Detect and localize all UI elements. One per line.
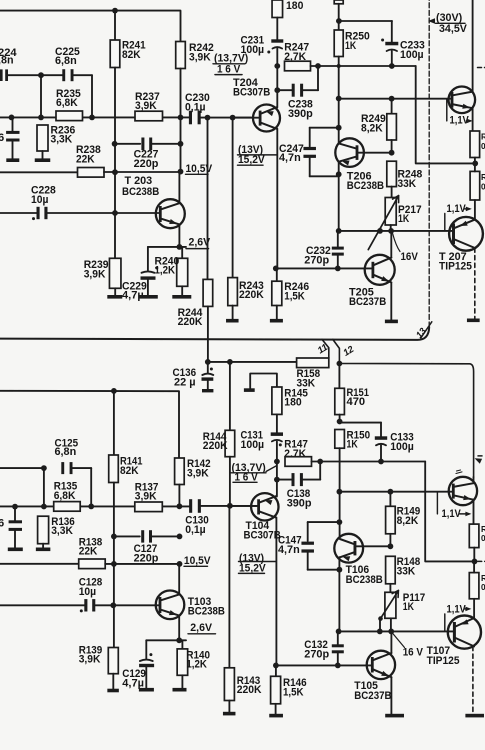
node R250 bottom	[337, 64, 341, 68]
wire Q-mid emitter down	[473, 500, 475, 524]
node 34,5V branch	[336, 18, 342, 24]
node C232 bottom	[335, 266, 341, 272]
svg-text:BC307B: BC307B	[244, 530, 281, 542]
node C233 bottom	[389, 63, 395, 69]
resistor R145 with ground elbow	[250, 374, 277, 389]
wire C125 left drop	[43, 468, 45, 506]
capacitor C229	[147, 247, 149, 271]
node main x91	[88, 504, 94, 510]
node C247 top	[336, 125, 342, 131]
wire bottom supply to right rail	[339, 364, 473, 478]
svg-text:BC237B: BC237B	[354, 690, 391, 702]
resistor R243	[228, 278, 238, 306]
svg-text:180: 180	[286, 0, 303, 12]
wire R244 top vertical	[207, 118, 209, 280]
svg-text:BC307B: BC307B	[233, 86, 270, 98]
ground C226	[6, 158, 19, 162]
svg-text:0: 0	[481, 534, 485, 543]
wire T103 emitter	[178, 616, 180, 641]
arrow supply into module	[428, 18, 435, 24]
ground R136	[36, 548, 51, 552]
svg-text:0,1µ: 0,1µ	[185, 101, 206, 113]
node x115-C227	[112, 141, 118, 147]
resistor R241	[110, 40, 120, 68]
svg-text:BC238B: BC238B	[347, 180, 384, 192]
wire 16V feed elbow	[416, 66, 476, 163]
wire top supply rail to R242	[0, 11, 181, 42]
node R151-R150 / C133	[337, 419, 343, 425]
arrow T104 emitter (PNP)	[265, 500, 273, 505]
svg-text:TIP125: TIP125	[439, 261, 472, 273]
node rail-R141	[111, 388, 117, 394]
wire emitter node	[148, 246, 186, 248]
node P117 bottom / T105 collector	[388, 629, 394, 635]
wire T107 base line	[339, 630, 453, 632]
node C133 bottom	[378, 459, 384, 465]
ground R246	[270, 319, 283, 323]
resistor R148	[386, 556, 396, 584]
wire R241 bottom vertical	[114, 68, 116, 262]
ground R146	[269, 714, 283, 718]
node T206 emitter / C247 bottom	[336, 171, 342, 177]
node collector-feedback	[178, 169, 184, 175]
node R149-R148-T106 base	[388, 543, 394, 549]
resistor R143	[224, 668, 234, 701]
svg-text:1,5K: 1,5K	[283, 686, 304, 698]
resistor R151	[338, 364, 340, 389]
node R147 left / T104 emitter	[274, 459, 280, 465]
wire R238 to collector net	[104, 171, 181, 173]
svg-text:390p: 390p	[287, 498, 312, 510]
node C227 right	[178, 141, 184, 147]
pin 11	[322, 339, 329, 358]
svg-text:220p: 220p	[134, 158, 159, 170]
resistor R236	[37, 125, 48, 151]
svg-text:0: 0	[481, 183, 485, 192]
node P117 wiper tail	[378, 616, 383, 621]
svg-text:3,9K: 3,9K	[84, 268, 106, 280]
ground R243	[226, 319, 239, 323]
svg-text:1,2K: 1,2K	[186, 659, 207, 671]
svg-text:1,1V: 1,1V	[447, 203, 467, 215]
transistor Q-upper-right (unlabeled)	[449, 87, 476, 114]
wire T107 collector dashed	[472, 646, 474, 713]
svg-text:1,2K: 1,2K	[155, 265, 176, 277]
svg-text:3,9K: 3,9K	[135, 100, 157, 112]
wire base drive	[339, 98, 451, 100]
wire R141 bottom vertical	[113, 483, 115, 648]
resistor R-col-B (label cut)	[470, 171, 480, 200]
svg-text:470: 470	[347, 396, 366, 408]
transistor T204	[233, 117, 259, 119]
resistor R158	[297, 358, 329, 368]
wire T105 emitter	[390, 677, 392, 714]
arrow supply pin at right rail	[475, 458, 483, 463]
node main line x92	[89, 115, 95, 121]
capacitor C131	[276, 414, 278, 432]
wire T105 collector	[390, 631, 392, 653]
node x115-C228 line	[112, 210, 118, 216]
resistor R242	[176, 42, 186, 69]
resistor R141	[109, 455, 119, 483]
svg-text:390p: 390p	[288, 108, 313, 120]
svg-text:R: R	[481, 525, 485, 534]
node x113-R138	[111, 561, 117, 567]
wire T207 collector dashed	[474, 248, 476, 319]
svg-text:100µ: 100µ	[400, 49, 424, 61]
resistor R-col-D (label cut)	[469, 573, 479, 599]
transistor T205	[365, 255, 395, 285]
wire base drive bottom	[339, 491, 451, 493]
svg-text:3,9K: 3,9K	[189, 52, 211, 64]
wire main to R143	[228, 506, 230, 668]
bottom rail wire	[0, 391, 179, 458]
svg-text:6,8K: 6,8K	[56, 97, 78, 109]
module boundary top block	[0, 327, 429, 340]
node C136 top	[205, 359, 211, 365]
wire T205 base line	[276, 267, 372, 269]
capacitor C224 (cut at edge)	[0, 69, 3, 81]
svg-text:10µ: 10µ	[31, 194, 48, 206]
node T203 emitter	[177, 244, 183, 250]
wire R243 top vertical	[232, 118, 234, 278]
node R249 top	[389, 96, 395, 102]
node pin12 junction	[337, 361, 343, 367]
svg-text:100µ: 100µ	[241, 439, 265, 451]
potentiometer P217	[385, 198, 396, 226]
svg-text:1K: 1K	[347, 439, 358, 451]
node P217 bottom	[388, 228, 394, 234]
svg-text:12: 12	[341, 343, 356, 358]
wire T204 collector vertical	[276, 129, 278, 269]
resistor R140	[181, 640, 183, 649]
ground C129	[139, 688, 154, 692]
wire emitter node bottom	[146, 639, 186, 641]
node P217 wiper tie	[377, 228, 383, 234]
svg-text:TIP125: TIP125	[427, 655, 460, 667]
svg-text:82K: 82K	[122, 49, 141, 61]
node R149 top	[388, 489, 394, 495]
svg-text:1K: 1K	[345, 40, 356, 52]
svg-text:0,1µ: 0,1µ	[185, 524, 206, 536]
node C238 top	[315, 63, 321, 69]
ground T207	[467, 319, 480, 323]
capacitor C124 stub (cut)	[0, 467, 44, 469]
resistor R139	[108, 648, 118, 674]
svg-text:220K: 220K	[203, 440, 228, 452]
svg-text:1,1V: 1,1V	[442, 508, 462, 520]
svg-text:R: R	[481, 574, 485, 583]
node base drive branch bottom	[337, 489, 343, 495]
wire T206 base	[358, 152, 391, 154]
transistor Q-mid-right (unlabeled)	[449, 477, 477, 505]
node main x44	[41, 504, 47, 510]
wire 34,5V supply	[339, 20, 392, 22]
voltage 1,1V (upper)	[446, 99, 448, 121]
wire col-B to T207	[474, 200, 476, 220]
svg-text:15,2V: 15,2V	[238, 154, 265, 166]
ground C229	[139, 295, 158, 299]
ground R239	[107, 295, 122, 299]
node R247 left / T204 emitter	[274, 63, 280, 69]
node C224/C225	[38, 72, 44, 78]
voltage 1,1V (mid bottom)	[436, 492, 438, 514]
node main-R243	[230, 115, 236, 121]
svg-text:1,5K: 1,5K	[284, 290, 305, 302]
ground R139	[107, 689, 119, 693]
node x338 - P217 line	[336, 228, 342, 234]
wire bottom main right of C130	[201, 505, 257, 507]
wire Q-upper emitter down	[472, 108, 474, 131]
wire T104 emitter up	[276, 462, 278, 497]
wire R138 to collector net	[105, 563, 179, 565]
svg-text:,8n: ,8n	[0, 55, 14, 67]
svg-text:4,7n: 4,7n	[279, 152, 301, 164]
node main-R244	[205, 115, 211, 121]
wire R241 top	[114, 11, 116, 40]
wire Q-upper collector to top	[472, 0, 474, 92]
svg-text:6: 6	[0, 132, 4, 144]
resistor R248	[387, 161, 397, 186]
resistor R250 chain (cut resistor top)	[334, 0, 343, 4]
resistor R-col-A (label cut)	[470, 131, 480, 158]
pin 12	[333, 339, 340, 363]
node main x15	[12, 504, 18, 510]
wire wiper to base line	[379, 619, 381, 632]
wire T205 collector	[390, 231, 392, 258]
svg-text:270p: 270p	[304, 648, 329, 660]
node C147 top	[337, 519, 343, 525]
svg-text:220K: 220K	[178, 316, 203, 328]
resistor R250	[334, 30, 343, 57]
wire R144 top vertical	[229, 362, 231, 430]
node main-R142	[177, 503, 183, 509]
wire T105 base line	[276, 664, 371, 666]
resistor R245 180 (cut top)	[272, 0, 283, 18]
node T103 emitter	[176, 637, 182, 643]
ground R140	[173, 688, 187, 692]
capacitor C127	[114, 535, 140, 537]
node main-R242	[178, 115, 184, 121]
ground R236	[35, 158, 51, 162]
svg-text:100µ: 100µ	[241, 44, 265, 56]
svg-text:10µ: 10µ	[79, 586, 96, 598]
wire R141 top	[113, 391, 115, 455]
wire T203 emitter	[178, 224, 180, 247]
svg-text:3,3K: 3,3K	[51, 525, 73, 537]
capacitor C129	[145, 640, 147, 658]
capacitor C147	[308, 521, 340, 523]
wire col-D to T107	[473, 561, 475, 572]
node T106 emitter / C147 bottom	[337, 567, 343, 573]
capacitor C136	[207, 362, 209, 373]
svg-text:220K: 220K	[239, 289, 264, 301]
transistor T106	[338, 557, 340, 631]
node x113-C127	[111, 534, 117, 540]
svg-text:0: 0	[481, 583, 485, 592]
wire P217 bottom line to T207 base	[339, 230, 452, 232]
transistor T104	[230, 505, 257, 507]
wire T203 collector	[178, 172, 180, 204]
capacitor C247	[310, 127, 339, 129]
svg-text:16 V: 16 V	[403, 646, 424, 658]
svg-text:6: 6	[0, 517, 4, 529]
resistor R249	[391, 99, 393, 114]
wire 16V elbow down	[425, 462, 474, 562]
node C138 top	[317, 459, 323, 465]
svg-text:R: R	[481, 173, 485, 182]
wire R142 bottom (T103 collector net)	[178, 485, 180, 507]
svg-text:3,9K: 3,9K	[187, 468, 209, 480]
node right column mid	[472, 161, 478, 167]
capacitor C138	[274, 477, 280, 483]
resistor R146	[275, 665, 277, 676]
transistor T207	[449, 217, 483, 251]
svg-text:2,6V: 2,6V	[190, 622, 212, 634]
svg-text:BC238B: BC238B	[188, 605, 225, 617]
svg-text:6,8n: 6,8n	[55, 55, 77, 67]
node T104 collector - T105 base line	[273, 663, 279, 669]
svg-text:100µ: 100µ	[390, 441, 414, 453]
node main line x11.5	[9, 115, 15, 121]
node rail-R241 junction	[112, 8, 118, 14]
transistor T206	[338, 161, 340, 231]
resistor R142	[175, 458, 185, 485]
resistor R239	[109, 258, 121, 288]
svg-text:10,5V: 10,5V	[186, 163, 213, 175]
node main-R144	[227, 503, 233, 509]
wire P117 bottom	[390, 618, 392, 631]
svg-text:22K: 22K	[79, 546, 98, 558]
wire C125 right drop	[90, 468, 92, 506]
svg-text:4,7n: 4,7n	[278, 544, 300, 556]
wire collector vertical lower	[180, 144, 182, 172]
resistor R144	[225, 430, 235, 456]
node C124/C125	[41, 465, 47, 471]
wire bottom main line left	[0, 505, 189, 507]
svg-text:180: 180	[284, 397, 301, 409]
svg-text:BC238B: BC238B	[346, 574, 383, 586]
node x113-C128	[110, 602, 116, 608]
node base drive branch	[336, 96, 342, 102]
capacitor C233	[391, 21, 393, 42]
wire T106 base	[356, 545, 390, 547]
svg-text:220p: 220p	[134, 552, 159, 564]
svg-text:1 6 V: 1 6 V	[217, 63, 241, 75]
node main line x41	[38, 115, 44, 121]
node x338-T107 base line	[336, 629, 342, 635]
ground T107	[465, 714, 484, 718]
resistor R149	[389, 492, 391, 507]
wire Q-mid collector up	[473, 477, 475, 483]
ground T205	[385, 320, 398, 324]
scan mark above transistor	[456, 470, 462, 474]
arrow T204 emitter (PNP)	[266, 111, 274, 116]
svg-text:6,8K: 6,8K	[54, 490, 76, 502]
capacitor C227	[115, 143, 141, 145]
dashed stub right edge 16V	[478, 67, 485, 69]
transistor T203	[156, 199, 185, 228]
wire T204 emitter up	[276, 66, 278, 108]
pin 13	[421, 322, 432, 338]
wire 16V line bottom	[312, 461, 426, 463]
wire T104 collector vertical	[275, 517, 277, 665]
wire R236 bottom	[42, 151, 44, 158]
transistor T107	[448, 616, 481, 649]
wire collector vertical	[180, 117, 182, 143]
node collector-feedback bottom	[177, 561, 183, 567]
wire between column resistors	[474, 158, 476, 172]
svg-text:3,3K: 3,3K	[51, 134, 73, 146]
ground R143	[223, 712, 236, 716]
dashed stub right edge bottom	[478, 560, 485, 562]
svg-text:220K: 220K	[237, 684, 262, 696]
capacitor C133	[340, 422, 381, 424]
svg-text:1,1V: 1,1V	[447, 604, 467, 616]
resistor R240	[181, 247, 183, 258]
svg-text:BC237B: BC237B	[349, 296, 386, 308]
wire R250 bottom to T206 collector	[338, 57, 340, 144]
svg-text:8,2K: 8,2K	[397, 515, 419, 527]
node T204 collector - base line	[273, 266, 279, 272]
svg-text:3,9K: 3,9K	[79, 654, 101, 666]
resistor R136	[38, 516, 49, 544]
wire col-C to node	[473, 548, 475, 562]
resistor R-col-C (label cut)	[469, 524, 479, 548]
svg-text:4,7µ: 4,7µ	[122, 677, 144, 689]
ground T105	[385, 714, 404, 718]
svg-text:BC238B: BC238B	[122, 186, 159, 198]
transistor T105	[367, 651, 395, 679]
potentiometer P117	[385, 592, 396, 618]
wire T103 collector	[178, 564, 180, 595]
svg-text:8,2K: 8,2K	[361, 122, 383, 134]
wire main line right of C230	[201, 117, 252, 119]
ground R240	[172, 295, 191, 299]
wire C224 to node	[8, 74, 41, 76]
svg-text:22K: 22K	[76, 153, 95, 165]
wire 16V line	[311, 65, 416, 67]
wire main signal line left	[0, 116, 189, 118]
svg-text:11: 11	[315, 341, 329, 355]
svg-text:16V: 16V	[401, 251, 419, 263]
node right column mid bottom	[472, 559, 478, 565]
svg-text:6,8n: 6,8n	[55, 446, 77, 458]
node C132 bottom	[335, 663, 341, 669]
node R249-R248-T206 base	[389, 150, 395, 156]
svg-text:3,9K: 3,9K	[135, 491, 157, 503]
wire C136 net	[208, 361, 297, 363]
wire T205 emitter	[390, 282, 392, 319]
svg-text:34,5V: 34,5V	[439, 23, 468, 35]
wire R144 to main	[229, 457, 231, 506]
wire C225 input drop	[40, 75, 42, 117]
svg-text:270p: 270p	[304, 255, 329, 267]
resistor R246	[276, 268, 278, 281]
node wiper tie bottom	[377, 629, 383, 635]
node R144 top	[227, 359, 233, 365]
svg-text:10,5V: 10,5V	[184, 555, 211, 567]
wire R244 bottom through divider	[207, 306, 209, 361]
svg-text:R: R	[481, 132, 485, 141]
wire R244 into bottom block	[0, 0, 1, 1]
ground C126	[8, 548, 23, 552]
svg-text:22 µ: 22 µ	[174, 377, 196, 389]
node x115-R238 line	[112, 169, 118, 175]
wire R150 bottom	[339, 448, 341, 537]
wire C225 output drop	[91, 75, 93, 117]
resistor R244	[203, 279, 213, 306]
